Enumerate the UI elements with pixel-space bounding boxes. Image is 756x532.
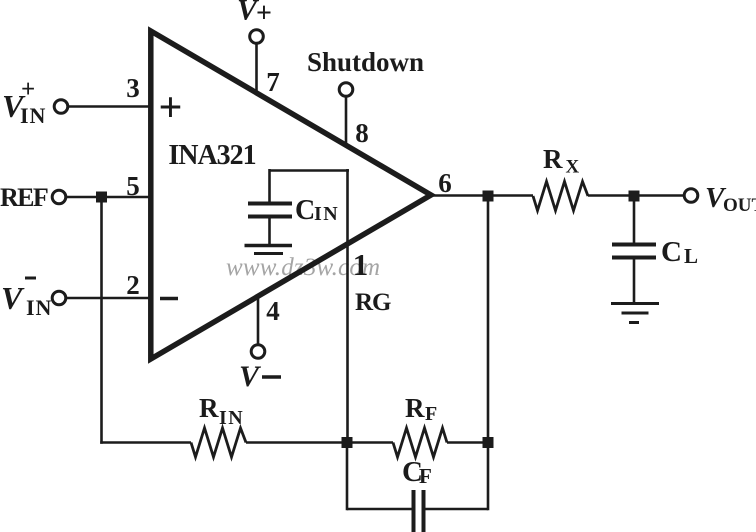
wire pin5 REF: [66, 196, 152, 199]
ground under CIN: [245, 244, 293, 247]
junction feedback node: [483, 437, 494, 448]
terminal Shutdown: [339, 83, 353, 97]
svg-text:+: +: [159, 85, 183, 131]
ground under CL: [611, 302, 659, 305]
svg-text:C: C: [295, 195, 315, 226]
wire output pin6 left segment: [431, 194, 533, 197]
svg-text:5: 5: [126, 171, 140, 201]
resistor RIN: [191, 428, 246, 457]
wire CIN stem top: [268, 169, 271, 204]
svg-text:R: R: [405, 393, 425, 423]
wire CF left drop: [346, 443, 349, 511]
resistor RF: [393, 428, 447, 457]
terminal VIN-: [52, 291, 66, 305]
wire bottom left segment: [100, 441, 191, 444]
svg-text:IN: IN: [20, 103, 46, 128]
wire bottom right segment: [447, 441, 488, 444]
junction at CL node: [629, 191, 640, 202]
wire pin7 V+: [255, 43, 258, 93]
wire feedback vertical at node 6: [487, 196, 490, 444]
capacitor CIN: [248, 202, 292, 206]
svg-text:L: L: [684, 244, 698, 268]
junction on REF wire: [96, 192, 107, 203]
svg-text:7: 7: [266, 67, 280, 97]
svg-text:REF: REF: [0, 183, 48, 212]
svg-text:4: 4: [266, 296, 280, 326]
svg-text:8: 8: [355, 118, 369, 148]
svg-text:+: +: [21, 76, 35, 103]
svg-text:Shutdown: Shutdown: [307, 47, 424, 77]
svg-text:V: V: [239, 360, 262, 393]
capacitor CF: [412, 490, 416, 532]
wire REF vertical: [100, 197, 103, 444]
wire pin2: [66, 297, 152, 300]
svg-text:V: V: [1, 280, 25, 316]
svg-text:X: X: [566, 157, 580, 178]
svg-text:C: C: [661, 236, 682, 268]
svg-text:3: 3: [126, 73, 140, 103]
svg-text:F: F: [419, 464, 432, 488]
svg-text:R: R: [199, 393, 219, 423]
junction at output node: [483, 191, 494, 202]
svg-text:INA321: INA321: [168, 140, 255, 171]
terminal VIN+: [54, 100, 68, 114]
svg-text:2: 2: [126, 270, 140, 300]
wire CF right drop: [487, 443, 490, 511]
wire pin4 V-: [257, 298, 260, 346]
svg-text:RG: RG: [355, 289, 391, 316]
svg-text:R: R: [543, 144, 563, 174]
wire CF bottom right: [425, 508, 488, 511]
terminal V+: [250, 30, 264, 44]
svg-text:+: +: [256, 0, 272, 29]
wire CL stem bottom: [633, 258, 636, 305]
junction RG node: [342, 437, 353, 448]
resistor RX: [533, 182, 588, 211]
wire pin3: [68, 105, 152, 108]
svg-text:1: 1: [353, 247, 369, 282]
wire CIN stem bottom: [268, 217, 271, 246]
wire CL stem top: [633, 196, 636, 246]
capacitor CL: [612, 243, 656, 247]
svg-text:IN: IN: [314, 203, 339, 225]
terminal REF: [52, 190, 66, 204]
svg-text:F: F: [425, 403, 437, 425]
capacitor CIN bracket top: [270, 169, 350, 172]
op-amp - input marker: [160, 297, 178, 301]
terminal VOUT: [684, 189, 698, 203]
wire bottom middle segment: [246, 441, 393, 444]
svg-text:6: 6: [438, 168, 452, 198]
wire pin8 Shutdown: [345, 97, 348, 147]
svg-text:IN: IN: [26, 295, 52, 320]
op-amp U1 INA321 triangle: [151, 31, 431, 359]
svg-text:IN: IN: [219, 407, 244, 429]
terminal V-: [251, 345, 265, 359]
wire RG pin1 vertical: [346, 169, 349, 443]
wire output right segment: [588, 194, 684, 197]
svg-text:OUT: OUT: [723, 195, 756, 216]
wire CF bottom left: [347, 508, 412, 511]
